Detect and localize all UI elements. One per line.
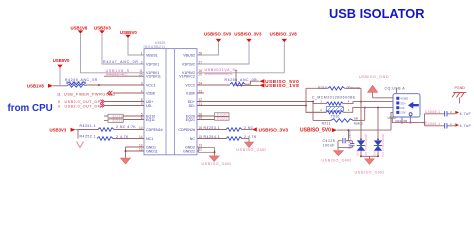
ground (below IC) xyxy=(202,156,232,166)
svg-text:EQ21: EQ21 xyxy=(217,117,228,121)
svg-text:VBUS2: VBUS2 xyxy=(183,53,195,57)
svg-text:V1P8V11: V1P8V11 xyxy=(146,75,161,79)
svg-text:USBISO_GND: USBISO_GND xyxy=(236,148,266,152)
svg-text:T910: T910 xyxy=(331,115,340,119)
power flag USBISO_5V0 xyxy=(204,31,232,42)
wire GND1/GND11 to ground xyxy=(125,147,145,158)
svg-text:USBISO_3V3: USBISO_3V3 xyxy=(259,127,289,133)
IC pin numbers left xyxy=(139,51,143,151)
svg-text:USB3V3: USB3V3 xyxy=(50,127,67,132)
svg-text:R211: R211 xyxy=(322,121,331,125)
ground (R4254) xyxy=(236,142,266,152)
svg-text:VBUS1: VBUS1 xyxy=(146,53,158,57)
IC U1929 ISOUSB211 digital isolator xyxy=(143,41,197,155)
wire choke out D- to connector pin2 xyxy=(343,107,395,113)
net label USBISO1V8 (NC strikethrough) xyxy=(205,72,234,76)
capacitor C4045 4.7uF xyxy=(425,110,472,117)
svg-text:EQ11: EQ11 xyxy=(146,118,155,122)
wire R4251 to CDPEN1# xyxy=(114,129,144,131)
resistor R4253 4.7K xyxy=(197,126,254,131)
svg-text:4 GND: 4 GND xyxy=(400,97,408,101)
svg-text:NC1: NC1 xyxy=(146,137,153,141)
wire USBISO_5V0 flag to pin 28 xyxy=(197,42,219,55)
svg-text:V1P8VC2: V1P8VC2 xyxy=(179,75,195,79)
net arrow USB3V3 (input) xyxy=(50,127,76,132)
svg-text:4.7uF: 4.7uF xyxy=(460,124,472,128)
svg-text:R4252.1: R4252.1 xyxy=(80,134,97,138)
power flag USB1V8 xyxy=(71,26,88,34)
svg-text:USBISO_1V8: USBISO_1V8 xyxy=(265,83,299,89)
net tie box GND2 xyxy=(197,147,216,156)
ground PGND (chassis) xyxy=(452,86,466,103)
IC pin numbers right xyxy=(199,51,203,151)
svg-text:12: 12 xyxy=(199,147,203,151)
svg-text:5V6 V6TA2A200B: 5V6 V6TA2A200B xyxy=(364,134,368,157)
svg-text:NC: NC xyxy=(190,137,196,141)
ground chevron (left) xyxy=(77,142,84,148)
wire 5V0 rail to connector pin1 xyxy=(337,112,396,131)
wire USB3V3 to resistors xyxy=(76,130,79,139)
ground (C4125) xyxy=(321,151,351,163)
ESD diode D29 xyxy=(355,102,368,157)
svg-text:R0402: R0402 xyxy=(354,122,363,126)
svg-text:USB ISOLATOR: USB ISOLATOR xyxy=(329,6,425,21)
svg-text:CDPEN1#: CDPEN1# xyxy=(146,128,163,132)
svg-text:V1BK: V1BK xyxy=(186,91,196,95)
svg-text:USB2.0_OUT_DM: USB2.0_OUT_DM xyxy=(65,104,102,108)
IC pin names left column xyxy=(146,53,163,153)
svg-text:2 D-: 2 D- xyxy=(400,106,405,110)
svg-text:100nF: 100nF xyxy=(323,143,335,147)
wire USB1V8 flag to pin 11 xyxy=(81,34,145,73)
resistor R210 0R xyxy=(306,86,361,106)
svg-text:V2BK: V2BK xyxy=(146,91,156,95)
svg-text:C4125: C4125 xyxy=(323,139,336,143)
svg-text:USBISO_GND: USBISO_GND xyxy=(202,162,232,166)
resistor R4256_ANC_0R xyxy=(197,78,259,86)
svg-text:from CPU: from CPU xyxy=(8,103,53,114)
ESD diode D30 xyxy=(372,108,385,157)
power flag USB5V0 (left) xyxy=(53,58,70,68)
wire DD- xyxy=(197,105,326,113)
svg-text:USBISO_5V0: USBISO_5V0 xyxy=(300,128,331,134)
svg-text:USBISO_GND: USBISO_GND xyxy=(359,75,389,79)
svg-text:EQ10: EQ10 xyxy=(113,114,124,118)
svg-text:9: 9 xyxy=(58,104,60,108)
svg-text:C4126_100nF: C4126_100nF xyxy=(347,130,351,149)
svg-text:V3P3V2: V3P3V2 xyxy=(182,62,195,66)
svg-text:4: 4 xyxy=(348,99,350,103)
wire EQ11 to pin 6 xyxy=(123,119,144,121)
wire USB3V3 flag to pin 2 xyxy=(102,34,144,64)
svg-text:11: 11 xyxy=(57,92,61,96)
wire V1BK stub pin 23 xyxy=(197,92,204,94)
resistor box EQ11 (left) xyxy=(104,119,123,123)
svg-text:2 NC 4.7K: 2 NC 4.7K xyxy=(116,125,136,129)
wire EQ10 to pin 5 xyxy=(123,115,144,117)
svg-text:5V6 V6TA2A200B: 5V6 V6TA2A200B xyxy=(381,134,385,157)
ground USBISO_GND (above connector) xyxy=(359,75,396,98)
resistor R211 0R xyxy=(313,102,365,126)
svg-text:EQ11: EQ11 xyxy=(113,119,124,123)
wire USB5V0 flag to pin 1 xyxy=(128,38,144,55)
svg-text:1 5V: 1 5V xyxy=(400,111,406,115)
off-page USB2.0_OUT_DP xyxy=(58,100,105,105)
svg-text:3: 3 xyxy=(320,99,322,103)
wire USBISO_1V8 flag to pin 25 xyxy=(197,42,284,73)
wire stub pin 25 row xyxy=(104,75,144,77)
resistor R4249_ANC_0R xyxy=(65,78,98,87)
svg-text:V3P3V1: V3P3V1 xyxy=(146,62,159,66)
svg-text:C4045.1: C4045.1 xyxy=(425,110,441,114)
resistor box EQ10 (left) xyxy=(104,114,123,118)
net arrow USBISO_1V8 (to left) xyxy=(259,83,299,89)
svg-text:USBISO_GND: USBISO_GND xyxy=(321,158,351,162)
wire connector shield stub (top) xyxy=(396,88,398,94)
svg-text:VCC2: VCC2 xyxy=(185,83,195,87)
wire USB5V0 flag down to VCC1 net xyxy=(59,68,61,85)
wire UD+ xyxy=(105,101,144,103)
ground (diodes) xyxy=(355,159,385,175)
power flag USBISO_3V3 xyxy=(234,31,262,42)
wire DD+ xyxy=(197,101,321,104)
net arrow USB1V8 (input) xyxy=(27,84,53,89)
power flag USBISO_1V8 xyxy=(270,31,298,42)
wire R4254 to ground xyxy=(248,139,250,143)
resistor box EQ21 (right) xyxy=(197,117,229,121)
svg-text:2: 2 xyxy=(320,108,322,112)
off-page USB_FIBER_PWRGOOD xyxy=(57,91,116,96)
capacitor C4125 100nF xyxy=(323,130,349,150)
svg-text:USBISO_GND: USBISO_GND xyxy=(355,171,385,175)
svg-text:ISOUSB211: ISOUSB211 xyxy=(143,45,165,49)
svg-text:C4046.1: C4046.1 xyxy=(425,122,441,126)
resistor R4252 4.7K xyxy=(80,134,130,140)
net arrow USBISO_3V3 (to left) xyxy=(252,127,288,133)
power flag USB3V3 xyxy=(94,26,111,34)
resistor R4254 4.7K xyxy=(197,135,257,140)
wire choke out D+ to connector pin3 xyxy=(343,101,395,104)
svg-text:D30: D30 xyxy=(372,150,376,156)
wire diodes to ground xyxy=(360,152,379,159)
resistor R4851 (NC) label xyxy=(106,72,128,76)
svg-text:R4251.1: R4251.1 xyxy=(80,124,97,128)
wire USB1V8 arrow to resistors xyxy=(53,85,67,87)
svg-text:PGND: PGND xyxy=(455,86,466,90)
svg-text:1: 1 xyxy=(348,108,350,112)
svg-text:UD-: UD- xyxy=(146,104,153,108)
wire pin 18 tap down to USBISO_1V8 arrow xyxy=(236,71,259,86)
power flag USB5V0 (top) xyxy=(120,30,137,38)
svg-text:CQ:USB A: CQ:USB A xyxy=(385,87,406,91)
svg-text:GND22: GND22 xyxy=(183,149,195,153)
svg-text:USB1V8: USB1V8 xyxy=(71,26,88,31)
svg-text:USB3V3: USB3V3 xyxy=(94,26,111,31)
svg-text:VCC1: VCC1 xyxy=(146,83,156,87)
common mode choke T910 xyxy=(306,96,356,119)
svg-text:D29: D29 xyxy=(355,150,359,156)
resistor box EQ20 (right) xyxy=(197,113,229,117)
svg-text:R4247_ANC_0R: R4247_ANC_0R xyxy=(103,60,139,64)
wire R4252 to NC1 xyxy=(113,138,144,140)
svg-text:4.7uF: 4.7uF xyxy=(460,112,472,116)
svg-text:USBISO_1V8: USBISO_1V8 xyxy=(270,31,298,36)
capacitor C4046 4.7uF xyxy=(425,122,472,129)
net arrow USBISO_5V0 (to left) xyxy=(259,79,299,85)
wire UD- xyxy=(105,105,144,107)
svg-text:GND11: GND11 xyxy=(146,149,158,153)
net label USBISO1V8_S (pin 18) xyxy=(205,68,237,72)
svg-text:USBISO_5V0: USBISO_5V0 xyxy=(204,31,232,36)
svg-text:USB5V0: USB5V0 xyxy=(120,30,137,35)
capacitor C4126 100nF (vertical) xyxy=(338,130,354,149)
svg-text:USBISO_3V3: USBISO_3V3 xyxy=(234,31,262,36)
ground (left of IC) xyxy=(121,158,131,164)
svg-text:3 D+: 3 D+ xyxy=(400,101,406,105)
IC pin names right column xyxy=(178,53,195,153)
svg-text:USB1V8: USB1V8 xyxy=(27,84,44,89)
wire USBISO_3V3 flag to pin 27 xyxy=(197,42,249,64)
resistor R4251 4.7K xyxy=(78,124,136,132)
off-page USB2.0_OUT_DM xyxy=(58,104,105,109)
wire resistors to VCC1 pin 3 xyxy=(86,84,145,86)
net arrow USBISO_5V0 (rail) xyxy=(300,128,337,134)
svg-text:USB5V0: USB5V0 xyxy=(53,58,70,63)
wire PWRGOOD to pin 4 xyxy=(113,92,144,94)
svg-text:CDPEN2#: CDPEN2# xyxy=(178,128,195,132)
wire connector shield to caps xyxy=(392,114,425,126)
connector CN USB-A xyxy=(385,87,421,123)
svg-text:EQ21: EQ21 xyxy=(186,118,195,122)
svg-text:DD-: DD- xyxy=(189,104,196,108)
